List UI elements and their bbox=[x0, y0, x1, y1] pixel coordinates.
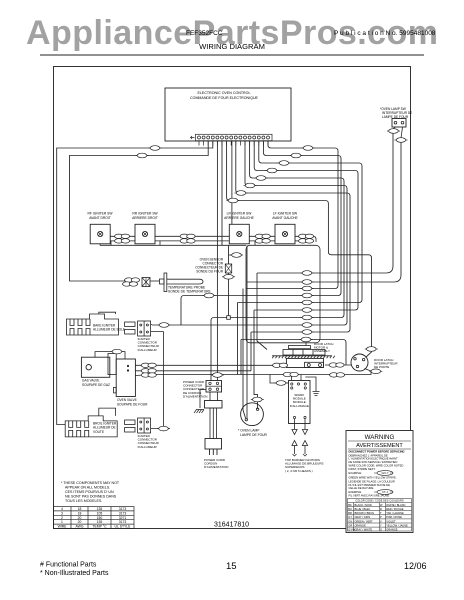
wire v243 row r3 down to oven lamp bbox=[243, 289, 246, 419]
svg-text:316417810: 316417810 bbox=[214, 522, 249, 529]
svg-text:AVERTISSEMENT: AVERTISSEMENT bbox=[356, 443, 403, 449]
bake igniter wires bbox=[151, 324, 164, 426]
svg-text:OR: OR bbox=[348, 523, 352, 527]
wire lamp switch 1 to node row r1 bbox=[257, 133, 393, 273]
svg-text:UL STYLE: UL STYLE bbox=[115, 525, 132, 529]
svg-text:SOUPAPE DE GAZ: SOUPAPE DE GAZ bbox=[82, 383, 110, 387]
svg-text:VOUTE: VOUTE bbox=[93, 430, 104, 434]
wire pin drop to igniter bus bbox=[221, 141, 223, 245]
connector ovals on fan wires bbox=[302, 146, 315, 151]
svg-text:APPEAR ON ALL MODELS.: APPEAR ON ALL MODELS. bbox=[65, 486, 110, 490]
svg-text:ORANGE: ORANGE bbox=[386, 528, 398, 532]
svg-text:TOUS LES MODELES.: TOUS LES MODELES. bbox=[65, 499, 102, 503]
svg-text:D'ALIMENTATION: D'ALIMENTATION bbox=[204, 465, 228, 469]
svg-text:GRAY / GRIS: GRAY / GRIS bbox=[355, 515, 371, 519]
wire fan f2 pin15 to node row r4 bbox=[181, 141, 341, 325]
door latch switch lower wire bbox=[369, 369, 382, 374]
svg-text:BR: BR bbox=[348, 511, 352, 515]
svg-text:TAN / HAVANE: TAN / HAVANE bbox=[386, 511, 404, 515]
svg-text:LAMPE DE FOUR: LAMPE DE FOUR bbox=[240, 433, 268, 437]
svg-text:GREEN WIRE WITH YELLOW STR: GREEN WIRE WITH YELLOW STRIPE. bbox=[349, 476, 397, 480]
harness enclosure box bbox=[246, 245, 320, 342]
svg-text:18: 18 bbox=[78, 511, 82, 515]
svg-text:FIRST, STRIPE NEXT.: FIRST, STRIPE NEXT. bbox=[349, 467, 376, 471]
igniter row connector pairs bbox=[114, 234, 130, 238]
broil igniter connector bbox=[138, 418, 151, 433]
wire v254 row r6 down to oven lamp oval bbox=[254, 310, 258, 409]
wire fan f5 pin12 to node row r7 bbox=[211, 141, 344, 381]
svg-text:GY: GY bbox=[348, 515, 352, 519]
wire fan f6 pin11 to node row r8 bbox=[152, 141, 347, 325]
svg-text:3173: 3173 bbox=[119, 507, 127, 511]
svg-text:D'ALLUMEUR: D'ALLUMEUR bbox=[138, 348, 158, 352]
door latch cam bbox=[272, 346, 335, 359]
svg-text:EXAMPLE:: EXAMPLE: bbox=[349, 471, 363, 475]
svg-text:GN: GN bbox=[348, 519, 352, 523]
warning color table bbox=[348, 499, 412, 532]
svg-text:P u b l i c a t i o n N o.: P u b l i c a t i o n N o. 5995481008 bbox=[334, 30, 436, 37]
igniter switch LF bbox=[275, 224, 295, 244]
door latch motor label bbox=[314, 342, 333, 353]
svg-text:GREEN / VERT: GREEN / VERT bbox=[355, 519, 374, 523]
oven sensor connector label bbox=[195, 258, 224, 274]
svg-text:WIRE: WIRE bbox=[58, 525, 68, 529]
svg-text:3173: 3173 bbox=[119, 511, 127, 515]
svg-text:COMMANDE DE FOUR ELECTRONIQ: COMMANDE DE FOUR ELECTRONIQUE bbox=[190, 96, 258, 100]
svg-text:SONDE DE TEMPERATURE: SONDE DE TEMPERATURE bbox=[168, 289, 212, 293]
svg-text:150: 150 bbox=[97, 516, 103, 520]
svg-text:AVANT DROIT: AVANT DROIT bbox=[89, 216, 111, 220]
wire lamp switch 2 to node row r2 bbox=[247, 142, 401, 282]
wire left L2 from pin 2 to temperature probe bbox=[70, 141, 209, 281]
broil igniter element bbox=[65, 416, 117, 437]
motor connector ovals bbox=[272, 363, 288, 367]
svg-text:GRAY / WHITE: GRAY / WHITE bbox=[355, 528, 373, 532]
svg-text:WHITE / BLANC: WHITE / BLANC bbox=[386, 503, 405, 507]
svg-text:VT-J: VT-J bbox=[382, 490, 388, 494]
spark module ground bbox=[305, 377, 316, 391]
temperature probe connector pair bbox=[124, 278, 140, 282]
electronic oven control box U1 bbox=[165, 88, 291, 141]
oven lamp switch label bbox=[380, 107, 412, 119]
oven lamp switch bbox=[392, 119, 406, 128]
oval on latch switch feed bbox=[365, 347, 378, 352]
wire fan f8 pin9 to door latch switch bbox=[227, 141, 372, 358]
oven sensor inline connector bbox=[225, 264, 231, 273]
wire v257 row r1 down to latch motor bbox=[257, 273, 267, 350]
svg-text:FEF352FCC: FEF352FCC bbox=[186, 30, 223, 37]
svg-text:PINK / ROSE: PINK / ROSE bbox=[386, 515, 402, 519]
pin stubs bbox=[199, 141, 268, 146]
svg-text:D'ALLUMAGE: D'ALLUMAGE bbox=[290, 404, 309, 408]
spark gap arrows bbox=[292, 430, 297, 435]
svg-text:( 2, 4 OR 5 HEADS ): ( 2, 4 OR 5 HEADS ) bbox=[285, 469, 313, 473]
bake igniter connector bbox=[138, 321, 151, 336]
svg-text:4: 4 bbox=[61, 507, 63, 511]
door latch switch bbox=[351, 354, 368, 371]
svg-text:ARRIERE GAUCHE: ARRIERE GAUCHE bbox=[224, 216, 254, 220]
temperature probe body bbox=[160, 273, 204, 292]
svg-text:18: 18 bbox=[78, 507, 82, 511]
svg-text:ORANGE: ORANGE bbox=[355, 523, 367, 527]
oval above power connector bbox=[211, 373, 224, 378]
svg-text:12/06: 12/06 bbox=[404, 561, 427, 571]
svg-text:SONDE DU FOUR: SONDE DU FOUR bbox=[196, 270, 223, 274]
wire v247 bus down to oven lamp bbox=[246, 245, 248, 419]
svg-text:3: 3 bbox=[61, 511, 63, 515]
power row pair ovals bbox=[283, 372, 299, 376]
svg-text:O: O bbox=[380, 528, 382, 532]
top burner igniters label bbox=[285, 458, 324, 473]
spark electrode wires bbox=[295, 419, 306, 429]
svg-text:EXEMPLE:: EXEMPLE: bbox=[349, 490, 363, 494]
header underline bbox=[40, 54, 424, 56]
svg-text:135: 135 bbox=[97, 520, 103, 524]
broil igniter terminals bbox=[125, 420, 135, 425]
gas valve output wires bbox=[135, 365, 380, 376]
door latch switch label bbox=[374, 358, 398, 369]
oven lamp bbox=[241, 403, 264, 426]
power cord connector label bbox=[183, 380, 207, 398]
control connector P1 pin row bbox=[196, 134, 273, 140]
spark module wires to harness bbox=[292, 375, 302, 381]
power cord connector bbox=[206, 381, 222, 393]
door latch motor body bbox=[286, 358, 323, 367]
diagram border frame bbox=[54, 67, 411, 529]
svg-text:135: 135 bbox=[97, 507, 103, 511]
svg-text:2: 2 bbox=[61, 516, 63, 520]
svg-text:P: P bbox=[380, 515, 382, 519]
igniter switch LR bbox=[229, 224, 249, 244]
svg-text:BLACK / NOIR: BLACK / NOIR bbox=[355, 503, 372, 507]
svg-text:RED / ROUGE: RED / ROUGE bbox=[386, 507, 403, 511]
svg-text:Y: Y bbox=[380, 523, 382, 527]
wire pin drop to LR igniter switch bbox=[231, 141, 233, 224]
svg-text:ALLUMEUR DE SOLE: ALLUMEUR DE SOLE bbox=[93, 328, 125, 332]
igniter switch RR bbox=[135, 224, 155, 244]
spark module left oval bbox=[270, 375, 289, 384]
svg-text:1: 1 bbox=[61, 520, 63, 524]
pin row arrow marker bbox=[191, 136, 195, 139]
svg-text:* Non-Illustrated Parts: * Non-Illustrated Parts bbox=[40, 570, 109, 577]
bake igniter terminals bbox=[125, 322, 135, 327]
svg-text:GN-Y: GN-Y bbox=[382, 471, 389, 475]
wire v237 row r5 down to power cord row bbox=[237, 303, 239, 375]
svg-text:VIOLET: VIOLET bbox=[386, 519, 396, 523]
svg-text:BROWN / BRUN: BROWN / BRUN bbox=[355, 511, 375, 515]
surface igniter switch row wires top bbox=[100, 236, 316, 245]
power cord wires bbox=[210, 408, 217, 439]
svg-text:* THESE COMPONENTS MAY NOT: * THESE COMPONENTS MAY NOT bbox=[61, 481, 120, 485]
svg-text:3173: 3173 bbox=[119, 520, 127, 524]
oven valve body bbox=[116, 359, 135, 397]
wire row r10 power cord to motor bbox=[241, 340, 346, 366]
wire v251 row r9 down to gas valve mid row bbox=[250, 332, 252, 371]
connector ovals center column bbox=[301, 271, 314, 276]
broil igniter wire bbox=[151, 428, 170, 430]
power cord ground bbox=[200, 390, 206, 409]
svg-text:COLOR CODE / CODE DES COULEURS: COLOR CODE / CODE DES COULEURS bbox=[355, 499, 404, 503]
oval on igniter bus bbox=[230, 253, 243, 258]
power cord plug bbox=[205, 439, 222, 450]
wire gauge table bbox=[54, 507, 135, 529]
svg-text:ELECTRONIC OVEN CONTROL: ELECTRONIC OVEN CONTROL bbox=[198, 91, 251, 95]
lamp switch connector ovals bbox=[387, 129, 400, 134]
svg-text:WIRING DIAGRAM: WIRING DIAGRAM bbox=[199, 42, 265, 51]
svg-text:D'ALLUMEUR: D'ALLUMEUR bbox=[138, 445, 158, 449]
svg-text:AWG: AWG bbox=[76, 525, 84, 529]
svg-text:3271: 3271 bbox=[119, 516, 127, 520]
connector ovals on left wires bbox=[149, 146, 162, 151]
svg-text:DE PORTE: DE PORTE bbox=[374, 365, 389, 369]
svg-text:15: 15 bbox=[226, 561, 237, 572]
svg-text:YELLOW / JAUNE: YELLOW / JAUNE bbox=[386, 523, 408, 527]
power cord strain relief bbox=[205, 401, 223, 409]
svg-text:# Functional Parts: # Functional Parts bbox=[40, 562, 97, 569]
svg-text:20: 20 bbox=[78, 516, 82, 520]
svg-text:WARNING: WARNING bbox=[365, 434, 395, 441]
igniter switch bus wire bbox=[100, 244, 246, 246]
oval to door latch motor top bbox=[305, 342, 307, 346]
temperature probe inline plug bbox=[142, 278, 150, 287]
oval on sensor row r4 bbox=[203, 293, 216, 298]
svg-text:V: V bbox=[380, 519, 382, 523]
svg-text:TEMP °C: TEMP °C bbox=[92, 525, 107, 529]
svg-text:AVANT GAUCHE: AVANT GAUCHE bbox=[272, 216, 298, 220]
svg-text:DISCONNECT POWER BEFORE SERVIC: DISCONNECT POWER BEFORE SERVICING bbox=[349, 450, 405, 454]
svg-text:BLUE / BLEU: BLUE / BLEU bbox=[355, 507, 371, 511]
wire fan f3 pin14 to node row r5 bbox=[238, 141, 363, 303]
svg-text:BK: BK bbox=[348, 503, 352, 507]
wire pin drop to power cord connector bbox=[216, 141, 218, 381]
svg-text:DE FAIRE SON SERVICE / ENTR: DE FAIRE SON SERVICE / ENTRETIEN bbox=[349, 460, 398, 464]
igniter switch RF bbox=[90, 224, 110, 244]
wire fan f7 pin10 to node row r9 bbox=[236, 141, 350, 332]
warning box bbox=[346, 431, 413, 533]
bake igniter element bbox=[67, 314, 119, 335]
node sensor drop wire bbox=[229, 245, 243, 315]
svg-text:105: 105 bbox=[97, 511, 103, 515]
svg-text:ARRIERE DROIT: ARRIERE DROIT bbox=[132, 216, 158, 220]
note these components bbox=[61, 481, 120, 503]
wire left L1 from pin 1 to broil area bbox=[57, 141, 213, 425]
svg-text:20: 20 bbox=[78, 520, 82, 524]
wire fan f4 pin13 to node row r6 bbox=[254, 141, 358, 310]
svg-text:NE SONT PAS DONNES DANS: NE SONT PAS DONNES DANS bbox=[65, 495, 117, 499]
svg-text:CES ITEMS POURVUS D' UN: CES ITEMS POURVUS D' UN bbox=[65, 490, 114, 494]
spark module box bbox=[289, 381, 311, 424]
wire v241 row r10 down to power cord row bbox=[240, 340, 242, 375]
wire fan f1 pin16 to node row r3 bbox=[246, 141, 338, 289]
svg-text:D'ALIMENTATION: D'ALIMENTATION bbox=[183, 394, 207, 398]
gas valve body bbox=[81, 357, 109, 377]
gas valve top jumper bbox=[95, 352, 125, 359]
warning example ovals bbox=[374, 471, 393, 495]
svg-text:BU: BU bbox=[348, 507, 352, 511]
power cord label bbox=[204, 458, 228, 469]
svg-text:R: R bbox=[380, 507, 382, 511]
svg-text:SOUPAPE DE FOUR: SOUPAPE DE FOUR bbox=[117, 402, 148, 406]
svg-text:CELLE DE RAYURE.: CELLE DE RAYURE. bbox=[349, 486, 375, 490]
